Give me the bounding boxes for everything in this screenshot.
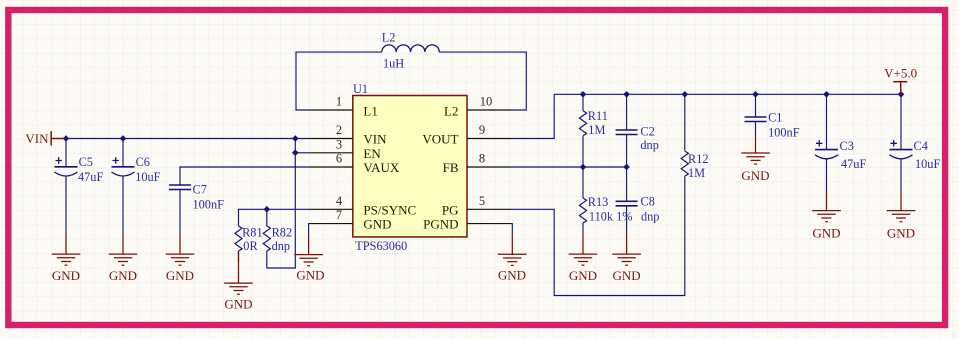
svg-text:6: 6 — [336, 152, 342, 166]
svg-text:3: 3 — [336, 137, 342, 151]
svg-text:GND: GND — [296, 268, 324, 283]
svg-text:100nF: 100nF — [193, 197, 225, 211]
svg-text:10uF: 10uF — [135, 170, 160, 184]
svg-text:4: 4 — [336, 194, 343, 208]
svg-text:VAUX: VAUX — [363, 160, 399, 175]
svg-text:GND: GND — [166, 268, 194, 283]
svg-text:EN: EN — [363, 146, 381, 161]
svg-text:GND: GND — [613, 268, 641, 283]
svg-text:FB: FB — [443, 160, 459, 175]
svg-text:GND: GND — [812, 225, 840, 240]
svg-text:VIN: VIN — [25, 131, 49, 146]
svg-text:L1: L1 — [363, 103, 377, 118]
svg-text:100nF: 100nF — [768, 126, 800, 140]
svg-text:47uF: 47uF — [841, 157, 866, 171]
svg-text:R13: R13 — [588, 195, 609, 209]
svg-text:GND: GND — [52, 268, 80, 283]
svg-text:PGND: PGND — [423, 217, 458, 232]
svg-text:GND: GND — [224, 297, 252, 312]
svg-text:7: 7 — [336, 208, 342, 222]
svg-text:1M: 1M — [588, 123, 605, 137]
svg-text:dnp: dnp — [641, 210, 659, 224]
svg-text:PS/SYNC: PS/SYNC — [363, 202, 416, 217]
svg-text:dnp: dnp — [640, 138, 658, 152]
svg-text:0R: 0R — [243, 239, 258, 253]
svg-text:GND: GND — [887, 225, 915, 240]
svg-text:V+5.0: V+5.0 — [884, 66, 917, 81]
svg-text:C4: C4 — [914, 139, 928, 153]
svg-text:10uF: 10uF — [915, 157, 940, 171]
svg-text:L2: L2 — [444, 103, 458, 118]
svg-text:TPS63060: TPS63060 — [355, 239, 407, 253]
svg-text:U1: U1 — [353, 82, 368, 96]
svg-text:110k 1%: 110k 1% — [589, 210, 633, 224]
svg-text:R82: R82 — [272, 226, 293, 240]
svg-text:R81: R81 — [242, 226, 263, 240]
svg-text:GND: GND — [363, 217, 391, 232]
svg-text:C1: C1 — [768, 111, 782, 125]
svg-text:VIN: VIN — [363, 132, 387, 147]
svg-text:GND: GND — [741, 168, 769, 183]
svg-text:R11: R11 — [588, 109, 608, 123]
svg-text:47uF: 47uF — [78, 170, 103, 184]
svg-text:GND: GND — [109, 268, 137, 283]
svg-text:L2: L2 — [382, 31, 396, 45]
svg-text:9: 9 — [479, 123, 485, 137]
svg-text:VOUT: VOUT — [422, 132, 458, 147]
svg-text:1M: 1M — [688, 166, 705, 180]
svg-text:dnp: dnp — [272, 239, 290, 253]
svg-text:C8: C8 — [641, 194, 655, 208]
svg-text:1uH: 1uH — [383, 57, 404, 71]
svg-text:R12: R12 — [688, 152, 709, 166]
svg-text:2: 2 — [336, 123, 342, 137]
svg-text:C2: C2 — [640, 125, 654, 139]
svg-text:10: 10 — [480, 95, 493, 109]
svg-text:C3: C3 — [840, 139, 854, 153]
svg-text:8: 8 — [479, 152, 485, 166]
svg-text:GND: GND — [569, 268, 597, 283]
svg-text:C5: C5 — [79, 155, 93, 169]
svg-text:PG: PG — [442, 202, 459, 217]
svg-text:C6: C6 — [136, 155, 150, 169]
svg-text:1: 1 — [336, 95, 342, 109]
svg-text:5: 5 — [479, 194, 485, 208]
svg-text:C7: C7 — [193, 183, 207, 197]
svg-text:GND: GND — [498, 268, 526, 283]
